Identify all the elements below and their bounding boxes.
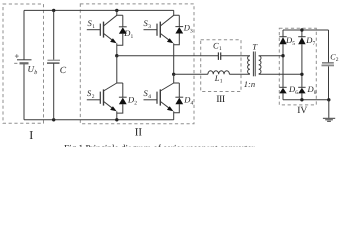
svg-text:4: 4 bbox=[191, 101, 194, 107]
transistor S2 gate bar bbox=[99, 92, 101, 104]
transistor S4 body bar bbox=[159, 89, 161, 105]
diode D1 triangle bbox=[119, 27, 127, 34]
wire: right leg midpoint wire to L1 bbox=[174, 73, 208, 75]
section box III (dashed) bbox=[201, 40, 241, 92]
transistor S1 gate bar bbox=[99, 24, 101, 36]
wire: battery branch lower bbox=[23, 64, 25, 120]
wire: S2 collector stub and D2 jog bbox=[117, 56, 123, 83]
transistor S3 body bar bbox=[159, 22, 161, 38]
transistor S4 emitter diagonal with arrow bbox=[160, 101, 170, 108]
capacitor C1 plate left bbox=[217, 52, 219, 60]
diode D1 branch wire bbox=[122, 15, 124, 27]
capacitor C plate bottom bbox=[47, 62, 60, 64]
wire: secondary top to rectifier bbox=[259, 55, 283, 57]
battery Ub plate - bbox=[20, 62, 29, 64]
capacitor C plate top bbox=[48, 59, 61, 61]
node: output bottom junction bbox=[327, 98, 330, 101]
svg-text:C: C bbox=[60, 66, 67, 76]
transformer T core bars bbox=[252, 52, 254, 77]
diode D1 cathode bar bbox=[119, 26, 127, 28]
wire: S4 collector stub and D4 jog bbox=[174, 74, 180, 83]
svg-text:T: T bbox=[252, 42, 258, 52]
capacitor C2 plate bottom bbox=[322, 64, 335, 66]
transistor S1 collector diagonal bbox=[104, 15, 117, 26]
diode D5 triangle bbox=[279, 37, 286, 44]
transistor S1 body bar bbox=[103, 22, 105, 38]
diode D7 cathode bar bbox=[298, 36, 305, 38]
svg-text:II: II bbox=[135, 126, 143, 138]
svg-text:2: 2 bbox=[336, 57, 339, 63]
transistor S3 gate lead bbox=[144, 29, 158, 31]
ground bars bbox=[323, 117, 335, 119]
diode D2 cathode bar bbox=[119, 96, 127, 98]
diode D4 triangle bbox=[175, 98, 183, 105]
wire: input cap branch lower bbox=[53, 63, 55, 120]
node: right branch bottom junction bbox=[300, 98, 303, 101]
diode D3 branch wire bbox=[178, 15, 180, 27]
capacitor C2 plate top bbox=[322, 62, 334, 64]
diode D6 triangle bbox=[279, 88, 286, 94]
node A: left leg midpoint bbox=[115, 54, 118, 57]
diode D3 triangle bbox=[175, 27, 183, 34]
transistor S2 collector diagonal bbox=[104, 83, 117, 91]
svg-text:b: b bbox=[34, 69, 37, 76]
svg-text:1: 1 bbox=[131, 34, 134, 40]
wire: left leg midpoint wire bbox=[117, 55, 218, 57]
transistor S1 emitter diagonal with arrow bbox=[104, 33, 114, 40]
wire: rectifier bottom rail bbox=[283, 99, 329, 101]
svg-text:1: 1 bbox=[220, 79, 223, 85]
transformer T secondary winding bbox=[259, 56, 261, 74]
svg-text:4: 4 bbox=[148, 94, 151, 100]
section box II (dashed) bbox=[80, 4, 194, 124]
node: S2 emitter junction bbox=[115, 118, 118, 121]
transistor S4 collector diagonal bbox=[160, 83, 173, 91]
svg-text:5: 5 bbox=[292, 41, 295, 47]
svg-text:7: 7 bbox=[313, 41, 316, 47]
transistor S2 body bar bbox=[103, 89, 105, 105]
svg-text:2: 2 bbox=[134, 101, 137, 107]
wire: secondary bottom to rectifier bbox=[259, 73, 302, 75]
wire: output cap branch upper bbox=[328, 30, 330, 62]
wire: S3 collector stub and D3 jog bbox=[174, 10, 180, 15]
node: C bottom junction bbox=[52, 118, 55, 121]
diode D6 cathode bar bbox=[279, 86, 286, 88]
node: right branch top junction bbox=[300, 28, 303, 31]
svg-text:1: 1 bbox=[92, 24, 95, 30]
wire: input cap branch upper bbox=[53, 10, 55, 60]
wire: L1 to transformer primary bottom bbox=[229, 73, 250, 75]
svg-text:2: 2 bbox=[92, 94, 95, 100]
svg-text:IV: IV bbox=[297, 106, 307, 116]
wire: S2 emitter vertical bbox=[116, 111, 118, 120]
node: C top junction bbox=[52, 9, 55, 12]
section box I (dashed) bbox=[3, 4, 44, 123]
transistor S1 gate lead bbox=[87, 29, 101, 31]
svg-text:3: 3 bbox=[148, 24, 151, 30]
node: secondary top junction bbox=[281, 54, 284, 57]
svg-text:III: III bbox=[216, 94, 225, 105]
wire: rectifier left branch bbox=[282, 30, 284, 37]
transistor S3 gate bar bbox=[156, 24, 158, 36]
node B: right leg midpoint bbox=[172, 73, 175, 76]
transistor S3 collector diagonal bbox=[160, 15, 173, 26]
transistor S3 emitter diagonal with arrow bbox=[160, 33, 170, 40]
transistor S2 gate lead bbox=[87, 99, 101, 101]
wire: S4 emitter vertical bbox=[173, 111, 175, 120]
svg-text:8: 8 bbox=[314, 90, 317, 96]
diode D4 cathode bar bbox=[175, 96, 183, 98]
battery plus mark bbox=[15, 55, 19, 57]
wire: bottom DC bus bbox=[24, 119, 174, 121]
transistor S4 gate bar bbox=[156, 92, 158, 104]
svg-text:1: 1 bbox=[219, 46, 222, 52]
diode D8 cathode bar bbox=[298, 86, 305, 88]
diode D2 branch wire bbox=[122, 83, 124, 98]
diode D4 branch wire bbox=[178, 83, 180, 98]
svg-text:Fig.1 Principle diagram of se: Fig.1 Principle diagram of series resona… bbox=[64, 143, 255, 147]
transformer T primary winding bbox=[248, 56, 250, 74]
wire: S1 collector stub and D1 jog bbox=[117, 10, 123, 15]
inductor L1 bbox=[208, 71, 230, 75]
transistor S2 emitter diagonal with arrow bbox=[104, 101, 114, 108]
wire: rectifier top rail bbox=[283, 29, 329, 31]
battery minus mark bbox=[14, 62, 17, 64]
svg-text:6: 6 bbox=[295, 90, 298, 96]
capacitor C1 plate right bbox=[220, 52, 222, 60]
wire: S1 emitter vertical bbox=[116, 43, 118, 55]
diode D2 triangle bbox=[119, 98, 127, 105]
svg-text:1:n: 1:n bbox=[244, 79, 255, 89]
wire: C1 to transformer primary top bbox=[221, 55, 250, 57]
diode D3 cathode bar bbox=[175, 26, 183, 28]
ground stem bbox=[328, 100, 330, 118]
wire: battery branch upper bbox=[23, 10, 25, 59]
svg-text:3: 3 bbox=[190, 29, 193, 35]
battery Ub plate + bbox=[17, 59, 32, 61]
node: S1 collector junction bbox=[115, 9, 118, 12]
transistor S4 gate lead bbox=[144, 99, 158, 101]
wire: top DC bus bbox=[24, 9, 174, 11]
wire: S3 emitter vertical bbox=[173, 43, 175, 74]
diode D7 triangle bbox=[298, 37, 305, 44]
wire: output cap branch lower bbox=[328, 66, 330, 99]
diode D8 triangle bbox=[298, 88, 305, 94]
wire: rectifier right branch bbox=[301, 30, 303, 37]
node: secondary bottom junction bbox=[300, 73, 303, 76]
section box IV (dashed) bbox=[279, 28, 316, 105]
diode D5 cathode bar bbox=[279, 36, 286, 38]
svg-text:I: I bbox=[29, 128, 33, 142]
